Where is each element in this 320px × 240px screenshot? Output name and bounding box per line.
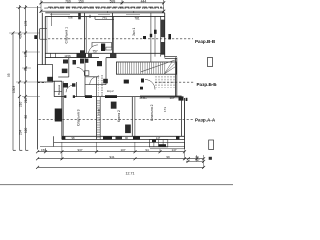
svg-text:95: 95 [7,73,11,77]
svg-text:99: 99 [166,155,170,159]
svg-text:173: 173 [163,107,167,112]
svg-text:178: 178 [24,20,28,26]
svg-text:12.71: 12.71 [126,172,135,176]
svg-text:Спальня 1: Спальня 1 [64,27,68,44]
svg-text:Ванная: Ванная [57,84,61,95]
svg-text:294: 294 [18,129,22,135]
svg-text:150: 150 [41,148,46,152]
svg-text:150: 150 [78,0,84,3]
svg-text:40 150 890 95 740 120 890 120: 40 150 890 95 740 120 890 120 360 95 189… [44,6,164,10]
svg-text:Кор.2: Кор.2 [107,89,114,93]
svg-text:90: 90 [125,136,128,140]
svg-text:1503: 1503 [12,86,16,93]
svg-text:120: 120 [24,127,28,133]
svg-text:95: 95 [24,67,28,71]
svg-text:Спальня 3: Спальня 3 [77,109,81,126]
svg-text:771: 771 [102,16,107,20]
svg-text:Зал 1: Зал 1 [132,28,136,36]
svg-text:178: 178 [24,51,28,57]
svg-text:781: 781 [134,16,140,20]
svg-text:Разр.Б-Б: Разр.Б-Б [197,82,218,87]
svg-text:147: 147 [171,148,176,152]
svg-text:86: 86 [24,115,28,119]
svg-text:98: 98 [72,136,75,140]
svg-text:ТХВ: ТХВ [97,109,101,115]
svg-text:Разр.А-А: Разр.А-А [195,118,216,123]
svg-text:941: 941 [109,155,114,159]
svg-text:107: 107 [120,148,125,152]
svg-text:599: 599 [110,0,116,3]
svg-text:147: 147 [156,136,161,140]
svg-text:210: 210 [24,97,28,103]
svg-text:1156: 1156 [64,54,71,58]
svg-text:Кухня 2: Кухня 2 [117,110,121,122]
svg-text:94: 94 [145,148,149,152]
svg-text:444: 444 [141,0,147,3]
svg-text:438: 438 [18,33,22,39]
svg-text:97: 97 [196,158,200,162]
svg-text:Разр.В-В: Разр.В-В [195,39,216,44]
svg-text:757: 757 [92,50,98,54]
svg-text:15 Вл: 15 Вл [139,96,147,100]
svg-text:107: 107 [169,96,174,100]
svg-text:756: 756 [67,15,72,19]
svg-text:Спальня 2: Спальня 2 [150,104,154,121]
svg-text:937: 937 [77,148,82,152]
svg-text:769: 769 [65,0,71,3]
svg-text:216: 216 [18,101,22,107]
